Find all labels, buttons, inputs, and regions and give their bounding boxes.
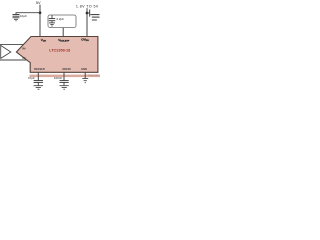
svg-text:5V: 5V [36, 1, 41, 5]
svg-text:235818 TA01a: 235818 TA01a [88, 74, 100, 77]
wire IN- [0, 59, 26, 61]
wire bypass box to VDDLBYP pin [62, 28, 64, 37]
svg-text:100nF: 100nF [54, 76, 63, 80]
svg-text:REFBUF: REFBUF [34, 67, 45, 71]
wire junction to capacitor C3 [87, 12, 90, 14]
node junction dot on OVDD rail [86, 12, 89, 15]
svg-text:GND: GND [81, 67, 87, 71]
ground for C3 [90, 14, 99, 16]
wire red separator band below IC [30, 75, 101, 78]
capacitor C2 2.2uF bypass box [48, 15, 76, 28]
ground under C1 [13, 17, 20, 19]
svg-text:2.2µF: 2.2µF [56, 17, 64, 21]
capacitor C3 OVDD bypass [89, 10, 91, 17]
svg-text:IN⁻: IN⁻ [22, 56, 27, 60]
wire junction to capacitor C1 [16, 13, 40, 15]
node junction dot on 5V rail [39, 11, 42, 14]
wire GND pin to ground [84, 72, 86, 78]
node analog input chevron symbol [1, 45, 11, 58]
svg-text:47µF: 47µF [28, 76, 35, 80]
svg-text:REFIN: REFIN [63, 67, 71, 71]
wire REFBUF pin to capacitor C4 [37, 72, 39, 80]
capacitor C1 10uF [13, 14, 20, 16]
wire 5V to VDD pin [39, 5, 41, 37]
svg-text:10µF: 10µF [20, 14, 27, 18]
wire OVDD supply to OVDD pin [86, 8, 88, 36]
ground at GND pin [82, 78, 88, 80]
ground under C5 [60, 85, 69, 87]
svg-text:LTC2358-18: LTC2358-18 [49, 48, 70, 52]
wire REFIN pin to capacitor C5 [63, 72, 65, 80]
svg-text:IN⁺: IN⁺ [22, 46, 27, 50]
svg-text:1.8V TO 5V: 1.8V TO 5V [76, 4, 99, 8]
ground in bypass box [49, 22, 55, 24]
wire IN+ [0, 44, 24, 46]
IC U1 ADC LTC2358-18 body [16, 37, 98, 73]
background [0, 0, 100, 100]
ground under C4 [34, 85, 43, 87]
